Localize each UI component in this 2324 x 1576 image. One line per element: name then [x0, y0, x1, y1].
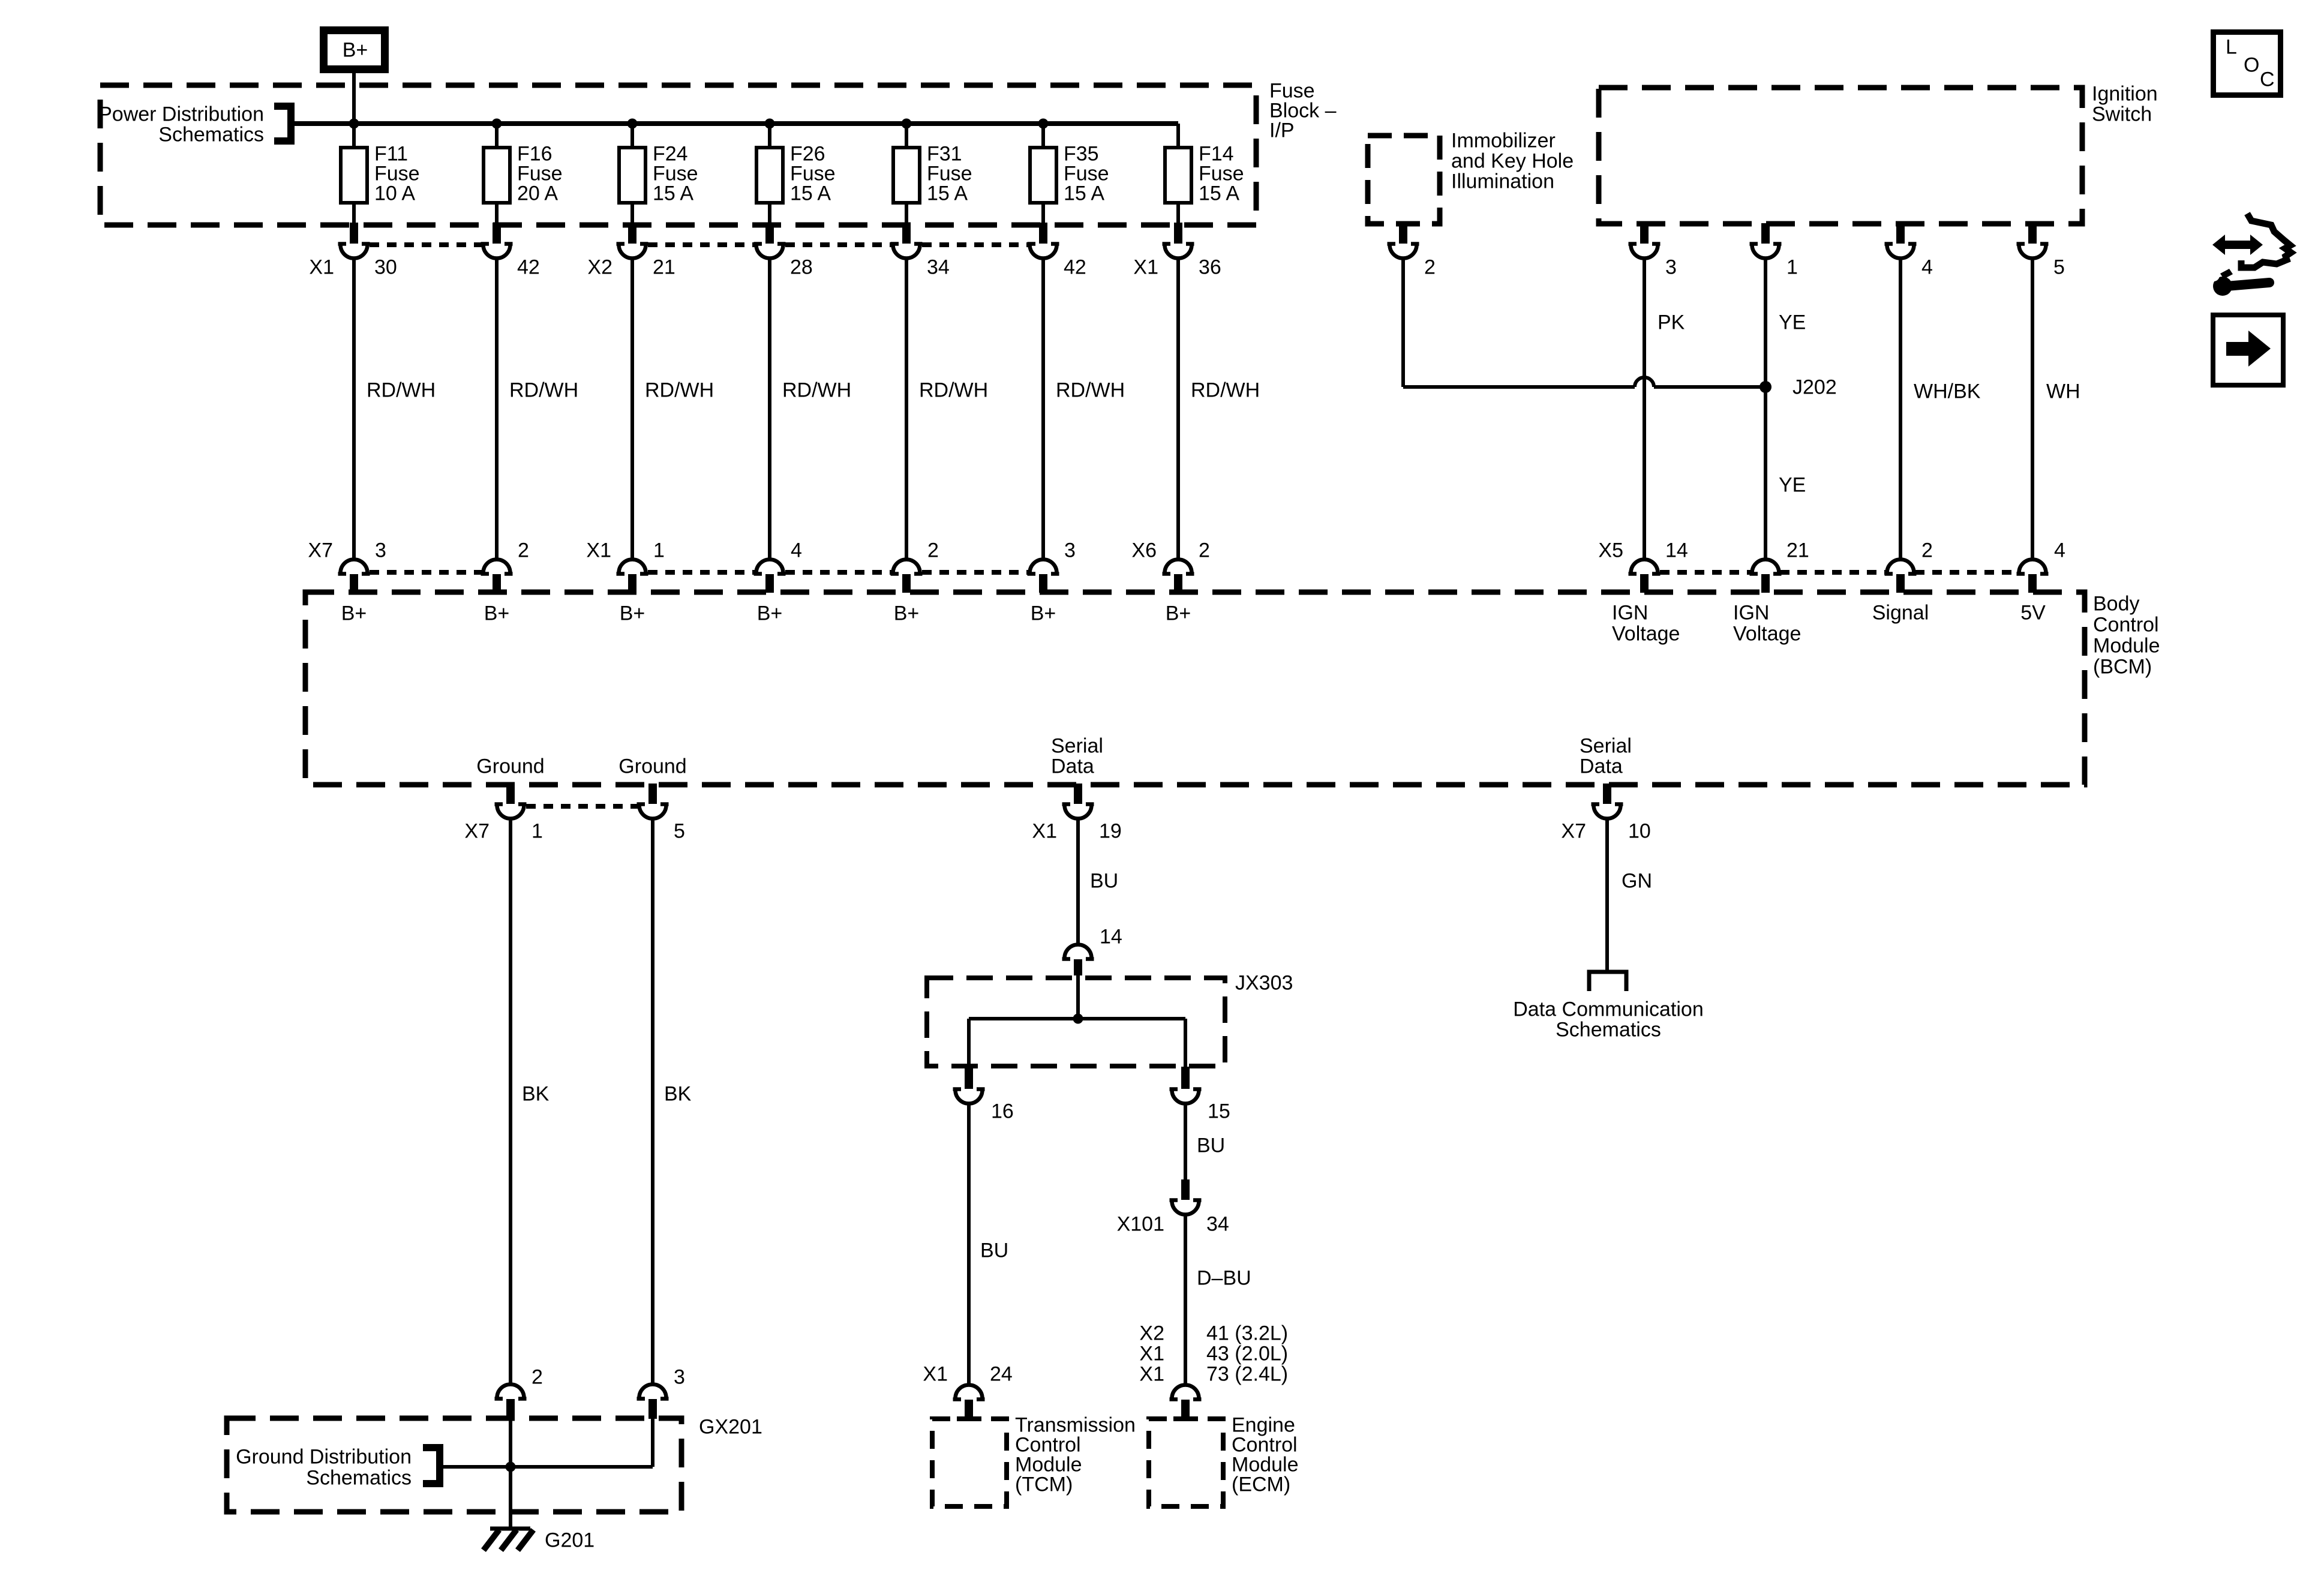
svg-text:and Key Hole: and Key Hole — [1451, 150, 1574, 173]
svg-text:RD/WH: RD/WH — [367, 379, 436, 402]
svg-text:G201: G201 — [545, 1529, 594, 1552]
svg-text:4: 4 — [791, 539, 802, 562]
svg-text:Illumination: Illumination — [1451, 170, 1554, 193]
svg-text:IGN: IGN — [1733, 602, 1769, 625]
svg-text:RD/WH: RD/WH — [919, 379, 988, 402]
svg-text:30: 30 — [374, 256, 397, 279]
svg-text:2: 2 — [927, 539, 939, 562]
svg-text:X1: X1 — [923, 1363, 948, 1386]
svg-text:B+: B+ — [484, 602, 510, 625]
svg-text:X7: X7 — [308, 539, 333, 562]
svg-text:Module: Module — [2093, 635, 2160, 658]
svg-text:4: 4 — [2054, 539, 2065, 562]
svg-text:14: 14 — [1665, 539, 1688, 562]
svg-text:15 A: 15 A — [790, 182, 831, 205]
svg-text:X1: X1 — [586, 539, 611, 562]
svg-text:WH: WH — [2046, 380, 2080, 403]
svg-text:L: L — [2226, 36, 2237, 59]
svg-text:1: 1 — [1786, 256, 1798, 279]
svg-text:RD/WH: RD/WH — [645, 379, 714, 402]
svg-text:GX201: GX201 — [699, 1416, 762, 1439]
svg-text:X7: X7 — [464, 820, 490, 843]
svg-text:43 (2.0L): 43 (2.0L) — [1206, 1343, 1288, 1365]
svg-text:20 A: 20 A — [517, 182, 558, 205]
svg-text:5: 5 — [674, 820, 685, 843]
svg-text:RD/WH: RD/WH — [509, 379, 578, 402]
svg-text:O: O — [2244, 54, 2259, 77]
svg-text:B+: B+ — [343, 39, 368, 62]
svg-text:B+: B+ — [1166, 602, 1191, 625]
svg-text:4: 4 — [1921, 256, 1933, 279]
svg-text:X101: X101 — [1117, 1213, 1164, 1236]
svg-text:BK: BK — [522, 1083, 550, 1106]
svg-text:Ground: Ground — [618, 755, 686, 778]
svg-text:(BCM): (BCM) — [2093, 656, 2152, 679]
svg-text:Power Distribution: Power Distribution — [98, 103, 264, 126]
svg-text:X1: X1 — [1139, 1363, 1164, 1386]
svg-text:Data Communication: Data Communication — [1513, 998, 1703, 1021]
svg-text:1: 1 — [653, 539, 665, 562]
svg-text:15 A: 15 A — [1199, 182, 1239, 205]
svg-text:Voltage: Voltage — [1733, 623, 1801, 646]
svg-text:X2: X2 — [1139, 1322, 1164, 1345]
svg-text:C: C — [2260, 68, 2275, 91]
svg-text:2: 2 — [532, 1366, 543, 1389]
svg-text:5V: 5V — [2020, 602, 2046, 625]
svg-text:34: 34 — [1206, 1213, 1229, 1236]
svg-text:42: 42 — [1064, 256, 1086, 279]
svg-text:PK: PK — [1658, 311, 1685, 334]
svg-text:(ECM): (ECM) — [1232, 1473, 1290, 1496]
svg-text:41 (3.2L): 41 (3.2L) — [1206, 1322, 1288, 1345]
svg-text:Voltage: Voltage — [1612, 623, 1680, 646]
svg-text:5: 5 — [2053, 256, 2065, 279]
svg-text:YE: YE — [1779, 474, 1806, 497]
svg-text:3: 3 — [674, 1366, 685, 1389]
svg-text:X7: X7 — [1561, 820, 1586, 843]
svg-text:J202: J202 — [1792, 376, 1837, 399]
svg-text:42: 42 — [517, 256, 540, 279]
svg-text:3: 3 — [1064, 539, 1076, 562]
svg-text:X2: X2 — [587, 256, 612, 279]
svg-text:34: 34 — [927, 256, 950, 279]
svg-text:10: 10 — [1628, 820, 1651, 843]
svg-text:73 (2.4L): 73 (2.4L) — [1206, 1363, 1288, 1386]
svg-text:21: 21 — [1786, 539, 1809, 562]
svg-text:Ground Distribution: Ground Distribution — [236, 1446, 412, 1469]
svg-text:X1: X1 — [1032, 820, 1057, 843]
svg-text:15 A: 15 A — [653, 182, 693, 205]
svg-text:Data: Data — [1051, 755, 1094, 778]
svg-text:Serial: Serial — [1051, 735, 1103, 758]
svg-text:Ignition: Ignition — [2092, 83, 2158, 106]
svg-text:X6: X6 — [1131, 539, 1157, 562]
svg-text:Control: Control — [2093, 614, 2159, 637]
svg-text:YE: YE — [1779, 311, 1806, 334]
svg-text:I/P: I/P — [1269, 119, 1295, 142]
svg-text:2: 2 — [1424, 256, 1436, 279]
svg-text:IGN: IGN — [1612, 602, 1648, 625]
svg-text:BU: BU — [980, 1239, 1008, 1262]
svg-text:28: 28 — [790, 256, 813, 279]
svg-text:10 A: 10 A — [374, 182, 415, 205]
svg-text:15 A: 15 A — [1064, 182, 1104, 205]
svg-text:Ground: Ground — [476, 755, 544, 778]
svg-text:Signal: Signal — [1872, 602, 1929, 625]
svg-text:B+: B+ — [1031, 602, 1056, 625]
svg-text:14: 14 — [1100, 926, 1122, 948]
svg-text:2: 2 — [1199, 539, 1210, 562]
svg-text:15: 15 — [1208, 1100, 1230, 1123]
svg-text:B+: B+ — [894, 602, 920, 625]
svg-text:Immobilizer: Immobilizer — [1451, 130, 1556, 152]
svg-text:X1: X1 — [1133, 256, 1158, 279]
svg-text:Schematics: Schematics — [158, 124, 264, 146]
svg-text:JX303: JX303 — [1235, 972, 1293, 995]
svg-text:Schematics: Schematics — [1556, 1019, 1661, 1041]
svg-text:X1: X1 — [1139, 1343, 1164, 1365]
svg-text:Serial: Serial — [1580, 735, 1632, 758]
svg-text:BU: BU — [1197, 1134, 1225, 1157]
svg-text:Body: Body — [2093, 593, 2140, 616]
svg-text:1: 1 — [532, 820, 543, 843]
svg-text:3: 3 — [1665, 256, 1677, 279]
svg-text:2: 2 — [1921, 539, 1933, 562]
svg-text:GN: GN — [1622, 870, 1652, 893]
svg-text:19: 19 — [1099, 820, 1122, 843]
svg-text:36: 36 — [1199, 256, 1221, 279]
svg-text:21: 21 — [653, 256, 675, 279]
svg-text:2: 2 — [518, 539, 529, 562]
svg-text:16: 16 — [991, 1100, 1014, 1123]
svg-text:3: 3 — [375, 539, 386, 562]
svg-text:X5: X5 — [1598, 539, 1623, 562]
svg-text:24: 24 — [990, 1363, 1013, 1386]
svg-text:X1: X1 — [309, 256, 334, 279]
svg-text:B+: B+ — [620, 602, 645, 625]
svg-text:15 A: 15 A — [927, 182, 968, 205]
svg-text:Switch: Switch — [2092, 103, 2152, 126]
svg-text:BK: BK — [664, 1083, 692, 1106]
svg-text:B+: B+ — [757, 602, 783, 625]
svg-text:RD/WH: RD/WH — [782, 379, 851, 402]
svg-text:Schematics: Schematics — [306, 1467, 412, 1490]
svg-text:RD/WH: RD/WH — [1056, 379, 1125, 402]
svg-text:B+: B+ — [341, 602, 367, 625]
svg-text:(TCM): (TCM) — [1015, 1473, 1073, 1496]
svg-text:WH/BK: WH/BK — [1914, 380, 1981, 403]
svg-text:BU: BU — [1090, 870, 1118, 893]
svg-text:Data: Data — [1580, 755, 1623, 778]
svg-text:RD/WH: RD/WH — [1191, 379, 1260, 402]
svg-text:D–BU: D–BU — [1197, 1267, 1251, 1290]
